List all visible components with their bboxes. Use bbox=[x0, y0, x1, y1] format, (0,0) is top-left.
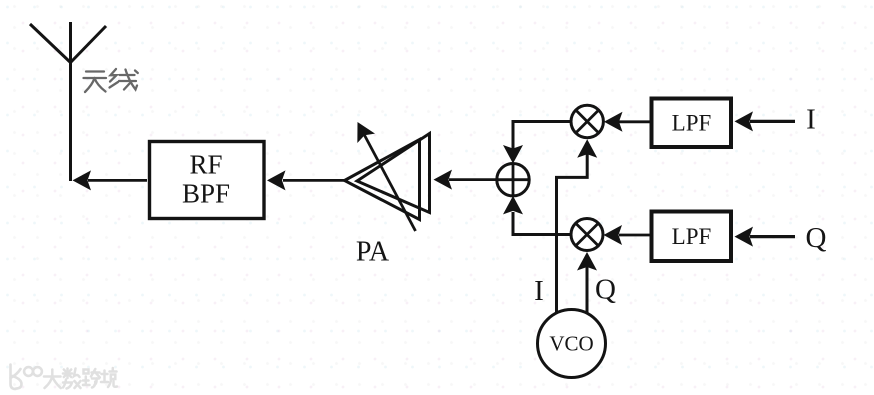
amplifier PA triangle 2 bbox=[357, 134, 430, 213]
wire input Q to LPF2 bbox=[735, 227, 796, 247]
label I input bbox=[806, 104, 816, 136]
svg-text:Q: Q bbox=[806, 222, 827, 254]
svg-text:I: I bbox=[806, 104, 816, 136]
svg-text:BPF: BPF bbox=[182, 179, 230, 209]
svg-text:LPF: LPF bbox=[672, 224, 712, 249]
wire summer to PA bbox=[434, 170, 498, 190]
watermark logo bbox=[11, 365, 42, 390]
svg-text:Q: Q bbox=[595, 274, 616, 306]
block RF BPF bbox=[150, 142, 265, 219]
VCO oscillator bbox=[538, 310, 606, 378]
label I (LO phase) bbox=[534, 275, 544, 307]
antenna right arm bbox=[71, 26, 107, 63]
label Q (LO phase) bbox=[595, 274, 616, 306]
wire LPF2 to mixer M2 bbox=[604, 225, 651, 245]
wire VCO I phase to mixer M1 bbox=[557, 139, 598, 313]
PA gain-control arrow bbox=[349, 117, 416, 231]
wire mixer M1 to summer bbox=[503, 122, 572, 164]
wire PA to RF BPF bbox=[267, 170, 345, 190]
mixer M1 bbox=[571, 105, 603, 137]
wire input I to LPF1 bbox=[735, 111, 796, 131]
wire mixer M2 to summer bbox=[503, 196, 571, 235]
svg-text:LPF: LPF bbox=[672, 110, 712, 135]
block LPF1 bbox=[652, 99, 732, 148]
antenna left arm bbox=[30, 24, 71, 63]
svg-text:VCO: VCO bbox=[549, 331, 593, 355]
mixer M2 bbox=[571, 219, 603, 251]
watermark text 大数跨境 bbox=[44, 368, 117, 389]
antenna label 天线 bbox=[84, 69, 138, 92]
wire RF BPF to antenna bbox=[73, 170, 148, 190]
wire VCO Q phase to mixer M2 bbox=[577, 252, 597, 314]
amplifier PA triangle 1 bbox=[345, 140, 420, 220]
label PA bbox=[356, 236, 390, 267]
label Q input bbox=[806, 222, 827, 254]
wire LPF1 to mixer M1 bbox=[604, 112, 650, 132]
svg-text:RF: RF bbox=[189, 149, 222, 179]
antenna mast bbox=[69, 22, 72, 181]
summer node (adder) bbox=[497, 164, 529, 196]
svg-text:PA: PA bbox=[356, 236, 390, 267]
svg-text:I: I bbox=[534, 275, 544, 307]
block LPF2 bbox=[652, 212, 732, 262]
